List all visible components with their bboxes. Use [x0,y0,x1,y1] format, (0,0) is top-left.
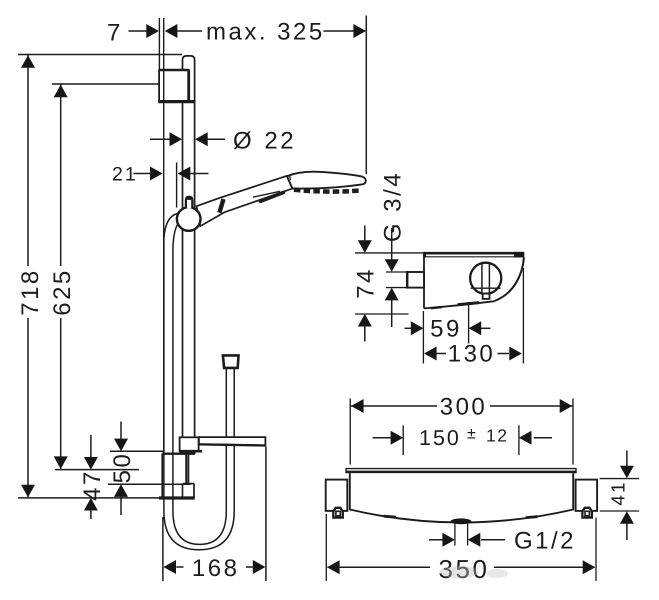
arrow dim150 left [391,431,404,445]
50 top reference line [110,450,164,452]
hand shower handle [197,176,293,226]
arrow dim718 top [21,55,35,68]
arrow dim300 left [351,399,364,413]
left union screw boss [333,508,343,518]
arrow dim21 left [150,167,163,181]
svg-text:47: 47 [79,469,106,501]
svg-text:150: 150 [419,426,461,450]
bottom wall bracket [159,454,195,499]
svg-text:±: ± [467,426,476,443]
svg-text:21: 21 [112,164,138,186]
soap shelf (edge view) [199,437,266,445]
arrow dimG12 right [468,533,481,547]
wall-anchor rod (thin) right line [163,18,165,453]
arrow dim168 left [163,560,176,574]
dim 41 [600,451,640,541]
max325 right extension line [365,16,367,175]
dim 625 [60,84,62,470]
arrow dim47 bottom [84,498,98,511]
arrow dim350 left [327,560,340,574]
svg-text:130: 130 [448,341,496,368]
bottom reference line (718 bottom) [18,497,160,499]
shower hose inner edge [173,223,226,545]
arrow dim21 right [178,167,191,181]
svg-text:74: 74 [352,267,379,299]
arrow dim130 right [509,347,522,361]
dim 130 [436,268,523,364]
arrow dim50 bottom [114,484,128,497]
watermark smudge [439,566,508,578]
svg-text:7: 7 [107,19,123,46]
svg-text:50: 50 [109,452,136,484]
thermostat body (side) [423,252,524,309]
arrow dim625 top [54,85,68,98]
arrow dim max325 right [353,24,366,38]
top wall bracket [158,70,195,102]
svg-text:12: 12 [486,426,508,446]
arrow dim o22 left [170,132,183,146]
slider housing left edge [176,163,178,208]
svg-text:41: 41 [609,480,630,505]
dim 7 shafts [129,30,147,32]
front view dimensions [326,399,639,582]
arrow dim130 left [424,347,437,361]
625 top reference line [52,83,159,85]
dim 168 [163,447,266,582]
svg-text:G1/2: G1/2 [514,528,576,555]
shower hose outer edge [164,214,234,550]
svg-text:625: 625 [49,268,76,316]
front glass plate [346,468,576,473]
dim 59 [405,302,491,364]
arrow dim74 top [358,240,372,253]
G1/2 outlet [451,518,472,545]
slider pin [186,197,192,209]
arrow dim718 bottom [21,485,35,498]
arrow dim7 [146,24,159,38]
left union [326,480,348,511]
wall bar rail tube Ø22 [183,56,195,454]
top reference line (718 top) [18,54,182,56]
shelf slider on rail [180,437,202,451]
side bottom tabs [431,307,442,308]
svg-text:168: 168 [192,555,240,582]
dim max325 shafts [177,30,202,32]
front body [350,473,573,522]
svg-text:300: 300 [440,394,488,421]
arrow dim50 top [114,439,128,452]
arrow dimG34 bottom [385,288,399,301]
arrow dim150 right [519,431,532,445]
svg-text:718: 718 [17,268,44,316]
labels left [17,19,325,583]
side knob [470,263,501,299]
arrow dim300 right [560,399,573,413]
svg-text:59: 59 [430,316,462,343]
svg-text:Ø: Ø [233,128,254,155]
dim 350 [326,514,596,581]
arrow dim59 left [411,321,424,335]
slider ball joint [177,207,201,231]
arrow dim74 bottom [358,314,372,327]
dim 718 [27,55,29,498]
50 bottom reference line [108,483,191,485]
dim 300 [350,399,573,465]
wall-anchor rod (thin) left line [158,18,160,70]
side wall inlet G3/4 [407,271,424,289]
625 bottom reference line [55,469,139,471]
dim 74 [355,226,424,342]
dim G1/2 [429,539,505,541]
arrow dimG34 top [385,259,399,272]
arrow dim41 bottom [620,511,634,524]
side view dimensions [355,226,524,364]
dim 150 +-12 [373,425,552,455]
dim G3/4 [386,228,408,327]
hand shower spray head [287,172,366,192]
dim 21 shafts [134,173,151,175]
arrow dim41 top [620,466,634,479]
svg-text:G 3/4: G 3/4 [379,171,406,242]
right union [576,480,598,511]
front fixing tabs [384,515,396,519]
arrow dimG12 left [442,533,455,547]
svg-text:max. 325: max. 325 [206,19,325,46]
arrow dim350 right [583,560,596,574]
svg-text:22: 22 [264,128,296,155]
dim o22 shafts [150,138,170,140]
arrow dim max325 left [165,24,178,38]
hose conical connector nut [223,355,239,368]
arrowheads left [21,24,366,574]
arrow dim168 right [253,560,266,574]
arrow dim o22 right [195,132,208,146]
arrow dim47 top [84,457,98,470]
right union screw boss [582,508,592,518]
dim 50 [120,422,122,516]
arrow dim625 bottom [54,456,68,469]
arrow dim59 right [469,321,482,335]
dim 47 [90,435,92,519]
